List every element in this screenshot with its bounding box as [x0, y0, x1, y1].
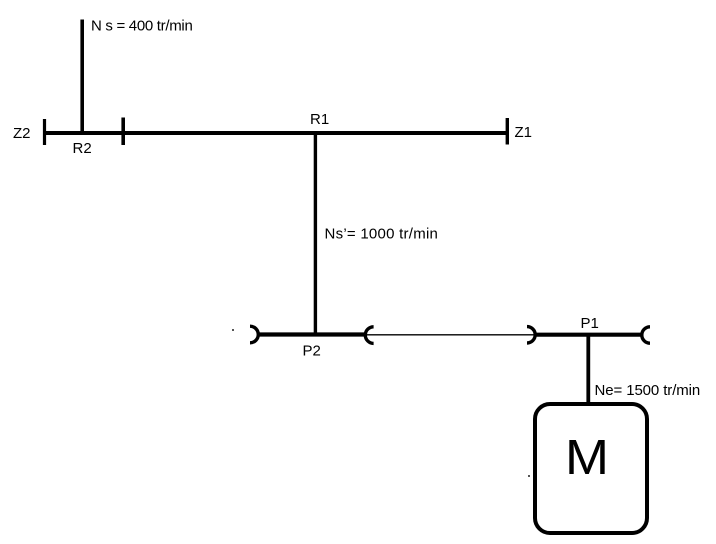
wire motor shaft vertical P1 to motor	[586, 335, 590, 404]
svg-text:Z1: Z1	[515, 124, 533, 141]
svg-text:N s = 400 tr/min: N s = 400 tr/min	[91, 17, 193, 34]
gear Z2 end tick	[43, 119, 46, 145]
svg-text:R1: R1	[310, 111, 329, 128]
wire intermediate shaft vertical R1 to P2	[314, 133, 317, 335]
svg-text:P2: P2	[303, 343, 321, 360]
wire input shaft vertical (worm shaft)	[80, 20, 84, 134]
belt between P2 and P1	[367, 334, 536, 336]
svg-text:P1: P1	[581, 315, 599, 332]
svg-text:M: M	[565, 431, 609, 485]
svg-text:Ns’= 1000 tr/min: Ns’= 1000 tr/min	[325, 226, 439, 243]
roller R2 tick	[121, 118, 125, 146]
pulley P2 shaft	[257, 332, 367, 336]
stray dot left of motor	[528, 475, 530, 477]
svg-text:Z2: Z2	[13, 125, 31, 142]
gear Z1 end tick	[506, 118, 509, 145]
shaft main horizontal	[43, 131, 509, 135]
pulley P1 shaft	[535, 333, 642, 337]
svg-text:Ne= 1500 tr/min: Ne= 1500 tr/min	[595, 382, 701, 399]
pulley P2 left flange arc	[250, 326, 258, 343]
svg-text:R2: R2	[73, 140, 92, 157]
stray dot left of belt	[232, 329, 234, 331]
pulley P1 left flange arc	[527, 327, 535, 343]
pulley P2 right flange arc	[365, 327, 373, 344]
motor M body	[535, 404, 647, 533]
pulley P1 right flange arc	[642, 327, 650, 343]
